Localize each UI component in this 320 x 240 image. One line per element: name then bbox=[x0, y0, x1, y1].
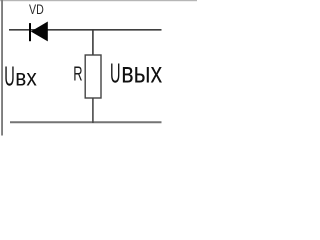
svg-text:вых: вых bbox=[121, 56, 162, 89]
svg-text:вх: вх bbox=[15, 65, 37, 91]
wire vertical from top wire to resistor bbox=[92, 30, 94, 56]
svg-text:VD: VD bbox=[29, 2, 44, 18]
top page border bbox=[0, 0, 197, 1]
wire top horizontal bbox=[9, 29, 162, 31]
left page border bbox=[1, 0, 3, 136]
resistor R body bbox=[85, 55, 101, 98]
diode VD triangle bbox=[31, 22, 48, 42]
wire bottom horizontal bbox=[10, 121, 162, 123]
wire vertical from resistor to bottom wire bbox=[92, 98, 94, 124]
svg-text:R: R bbox=[73, 64, 82, 86]
svg-text:U: U bbox=[4, 61, 15, 92]
svg-text:U: U bbox=[110, 57, 121, 88]
diode VD cathode bar bbox=[29, 23, 31, 41]
